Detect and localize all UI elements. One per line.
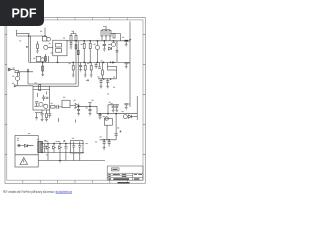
capacitor C22 <box>115 114 118 140</box>
diode D4 <box>47 144 50 153</box>
capacitor C24 <box>116 51 119 52</box>
resistor R6 <box>105 30 107 36</box>
wire C17 drop <box>65 153 67 161</box>
ground G27 <box>115 110 118 112</box>
resistor R3 <box>70 35 72 41</box>
ground G12 <box>100 86 103 88</box>
wire Q11 leads <box>18 72 34 86</box>
transistor Q16 <box>123 115 127 119</box>
wire box right out <box>49 106 52 108</box>
capacitor C31 <box>115 105 118 110</box>
wire bottom row top <box>41 143 84 145</box>
capacitor C12 <box>41 114 44 120</box>
frame date stamp text <box>118 182 130 184</box>
wire drop B <box>28 34 30 63</box>
transistor Q20 <box>47 37 51 41</box>
ground G3 <box>103 49 106 51</box>
connector J2 <box>8 68 10 71</box>
wire hang small 2 <box>58 118 60 122</box>
ground G15 <box>35 118 38 120</box>
resistor R5 <box>101 30 103 36</box>
capacitor C5 <box>124 103 130 107</box>
title block logo box <box>112 168 120 171</box>
capacitor C29 <box>57 105 62 109</box>
capacitor C9 <box>100 79 103 86</box>
ground G21 <box>59 161 62 163</box>
wire input stub <box>8 69 15 71</box>
ground G17 <box>77 114 80 116</box>
regulator box U4 <box>104 119 112 126</box>
ground G13 <box>106 86 109 88</box>
transistor Q4 <box>41 58 45 62</box>
wire bundle line 1 <box>17 33 30 35</box>
ground G7 <box>41 75 44 77</box>
wire bottom bus <box>38 160 105 162</box>
resistor R29 <box>75 45 77 50</box>
resistor R7 <box>109 30 111 36</box>
capacitor C17 <box>64 144 67 153</box>
resistor R30 <box>77 50 79 55</box>
resistor R8 <box>42 66 44 71</box>
junction dot <box>26 46 27 48</box>
sheet outer border frame <box>5 18 145 184</box>
svg-text:PDF created with FinePrint pdf: PDF created with FinePrint pdfFactory tr… <box>3 190 55 194</box>
wire R12 <box>90 62 92 74</box>
resistor R23 <box>89 44 91 49</box>
wire PS internal <box>15 146 38 155</box>
IC box U2 <box>62 100 70 107</box>
ground G18 <box>89 114 92 116</box>
ground G9 <box>84 75 87 77</box>
wire FB drops <box>74 153 80 161</box>
wire bundle line 2 <box>17 35 45 37</box>
wire lower bus left <box>79 105 97 107</box>
wire cluster verticals <box>46 54 49 62</box>
capacitor C2 <box>103 41 106 49</box>
title block text marks row2 <box>108 178 139 180</box>
wire double mid <box>28 84 78 86</box>
svg-text:PDF: PDF <box>12 7 37 21</box>
relay box K2 <box>36 56 41 61</box>
ground G25 <box>79 70 82 72</box>
capacitor C10 <box>106 79 109 86</box>
ground G5 <box>125 66 128 68</box>
capacitor C21 <box>108 140 111 147</box>
PDF badge <box>0 0 44 26</box>
wire D6 drop <box>59 153 61 161</box>
wire Q3 leads <box>108 41 114 45</box>
capacitor C25 <box>79 62 82 69</box>
title block row line A <box>107 174 133 176</box>
wire K drop 1 <box>102 62 104 70</box>
resistor R22 <box>83 44 85 49</box>
wire lower bus right <box>97 113 137 115</box>
U1 internal parts <box>35 92 47 107</box>
resistor R24 <box>113 34 115 39</box>
wire R28 lead <box>102 75 104 79</box>
wire K1 stub <box>44 28 46 37</box>
wire to caps <box>55 106 56 108</box>
capacitor C19 <box>78 142 81 153</box>
wire top bus <box>67 40 130 42</box>
transistor Q12 <box>39 102 43 106</box>
warning triangle <box>20 158 27 165</box>
wire bottom row mid <box>41 152 84 154</box>
title block text marks row1 <box>108 174 142 177</box>
plus mark <box>120 131 122 133</box>
diode D5 <box>53 144 56 153</box>
plus mark C17 <box>63 140 65 142</box>
wire Q4 leads <box>42 62 44 75</box>
ground G22 <box>103 148 106 150</box>
capacitor C32 <box>99 114 102 117</box>
wire D4 drop <box>47 153 49 161</box>
resistor pair block RP1 <box>56 43 62 47</box>
wire second bus <box>29 61 130 63</box>
transistor Q19 <box>105 117 108 120</box>
ground G10 <box>90 75 93 77</box>
wire arrow drop <box>27 72 29 84</box>
diode D7 <box>128 115 131 118</box>
connector pin J1 <box>16 31 17 37</box>
capacitor C33 <box>43 144 46 153</box>
wire drop C <box>30 36 32 62</box>
resistor R26 <box>45 57 47 62</box>
resistor R1 <box>37 44 39 49</box>
sheet inner border frame <box>7 20 143 180</box>
ground G16 <box>45 120 48 122</box>
diode D3 <box>25 144 28 147</box>
power supply box PS1 <box>15 136 38 168</box>
wire RP drop <box>57 56 59 63</box>
wire K horizontal <box>98 78 117 80</box>
diode D6 <box>59 144 62 153</box>
wire S horizontal <box>100 139 117 141</box>
transistor Q11 <box>15 76 19 80</box>
filter box FB1 <box>71 141 84 154</box>
wire bus jog <box>96 106 98 113</box>
resistor R12 <box>90 66 92 71</box>
capacitor C4 <box>124 62 130 66</box>
wire trio to drop <box>110 34 121 41</box>
zone tick marks right border <box>143 35 145 155</box>
fuse F1 <box>17 145 21 146</box>
title block row line B <box>107 177 143 179</box>
IC box U5 <box>53 40 67 56</box>
wire R1 leads <box>37 41 39 51</box>
wire Q18 leads <box>97 41 99 63</box>
wire right short rail <box>136 96 138 120</box>
diode D2 <box>14 85 17 87</box>
plus label mark <box>87 79 89 81</box>
wire R18 leads <box>46 110 48 119</box>
IC box U1 <box>33 86 50 110</box>
resistor R10 <box>72 66 74 71</box>
wire R5-R7 joins <box>102 26 110 41</box>
capacitor C26 <box>95 62 98 68</box>
wire R22 leads <box>83 41 85 63</box>
resistor R18 <box>46 114 48 118</box>
wire U3 feed <box>108 62 117 78</box>
ground G2 <box>36 51 39 53</box>
wire R23 leads <box>89 41 91 63</box>
capacitor C7 <box>98 62 101 68</box>
wire junction dots <box>28 35 117 144</box>
transistor Q3 <box>111 42 115 46</box>
resistor R4 <box>75 35 77 41</box>
resistor R28 <box>102 70 104 75</box>
wire mid rails <box>76 41 78 86</box>
capacitor C3 <box>124 40 130 44</box>
transistor Q15 <box>75 104 79 108</box>
transistor Q18 <box>96 46 100 50</box>
wire R11 <box>84 62 86 74</box>
capacitor C34 <box>48 110 51 118</box>
wire below box <box>35 110 42 118</box>
title block logo text <box>112 169 117 170</box>
ground G26 <box>112 110 115 112</box>
transformer T1 core <box>39 142 41 153</box>
wire U2 out <box>70 104 75 106</box>
footer link underline <box>56 193 73 195</box>
reference designator label specks <box>12 26 124 155</box>
plus mark C33 <box>44 140 46 142</box>
wire Q1 to U5 <box>48 46 53 48</box>
relay K1 <box>42 36 47 41</box>
wire R10 <box>72 62 74 74</box>
ground G8 <box>72 75 75 77</box>
warning mark <box>23 160 25 163</box>
wire right rail <box>129 22 131 108</box>
ground G6 <box>125 107 128 109</box>
ground G28 <box>99 117 102 119</box>
capacitor C27 <box>42 95 45 101</box>
ground G14 <box>41 120 44 122</box>
capacitor C28 <box>46 97 49 98</box>
diode D1 <box>109 47 112 50</box>
capacitor C30 <box>112 105 115 110</box>
title block divider line <box>107 172 143 174</box>
ground G4 <box>125 44 128 46</box>
IC box U3 <box>108 66 117 70</box>
resistor R11 <box>84 66 86 71</box>
wire hang small 3 <box>75 120 77 123</box>
zone tick marks bottom border <box>23 180 127 183</box>
junction arrow <box>27 69 29 72</box>
transistor Q1 <box>44 45 48 49</box>
transistor Q13 <box>44 104 48 108</box>
title block outer box <box>107 166 143 180</box>
plus label C3 <box>129 39 131 41</box>
zone tick marks left border <box>5 35 7 155</box>
capacitor C14 <box>89 106 92 113</box>
wire corner up <box>108 105 119 114</box>
wire drop x117 <box>116 41 118 63</box>
wire D7 out <box>131 116 137 118</box>
capacitor C13 <box>77 106 80 113</box>
resistor pair block RP2 <box>56 49 62 53</box>
wire stub up x90 <box>88 103 91 107</box>
svg-text:http://www.fineprint.com: http://www.fineprint.com <box>56 190 73 194</box>
ground G24 <box>70 47 73 49</box>
bus end arrow <box>112 61 115 63</box>
capacitor C23 <box>70 41 73 47</box>
resistor R17 <box>39 85 41 91</box>
resistor R27 <box>51 106 56 109</box>
wire R3 R4 top join <box>71 31 76 35</box>
label speck <box>19 40 21 41</box>
wire U4 down <box>106 125 108 140</box>
zone tick marks top border <box>23 18 127 20</box>
title block column divider <box>132 173 134 180</box>
transformer T1 <box>38 142 43 153</box>
wire mid-left net <box>19 72 33 77</box>
capacitor C20 <box>103 140 106 148</box>
IC box U1 top rail <box>33 89 50 91</box>
resistor R16 <box>15 71 19 73</box>
capacitor C18 <box>72 142 75 153</box>
